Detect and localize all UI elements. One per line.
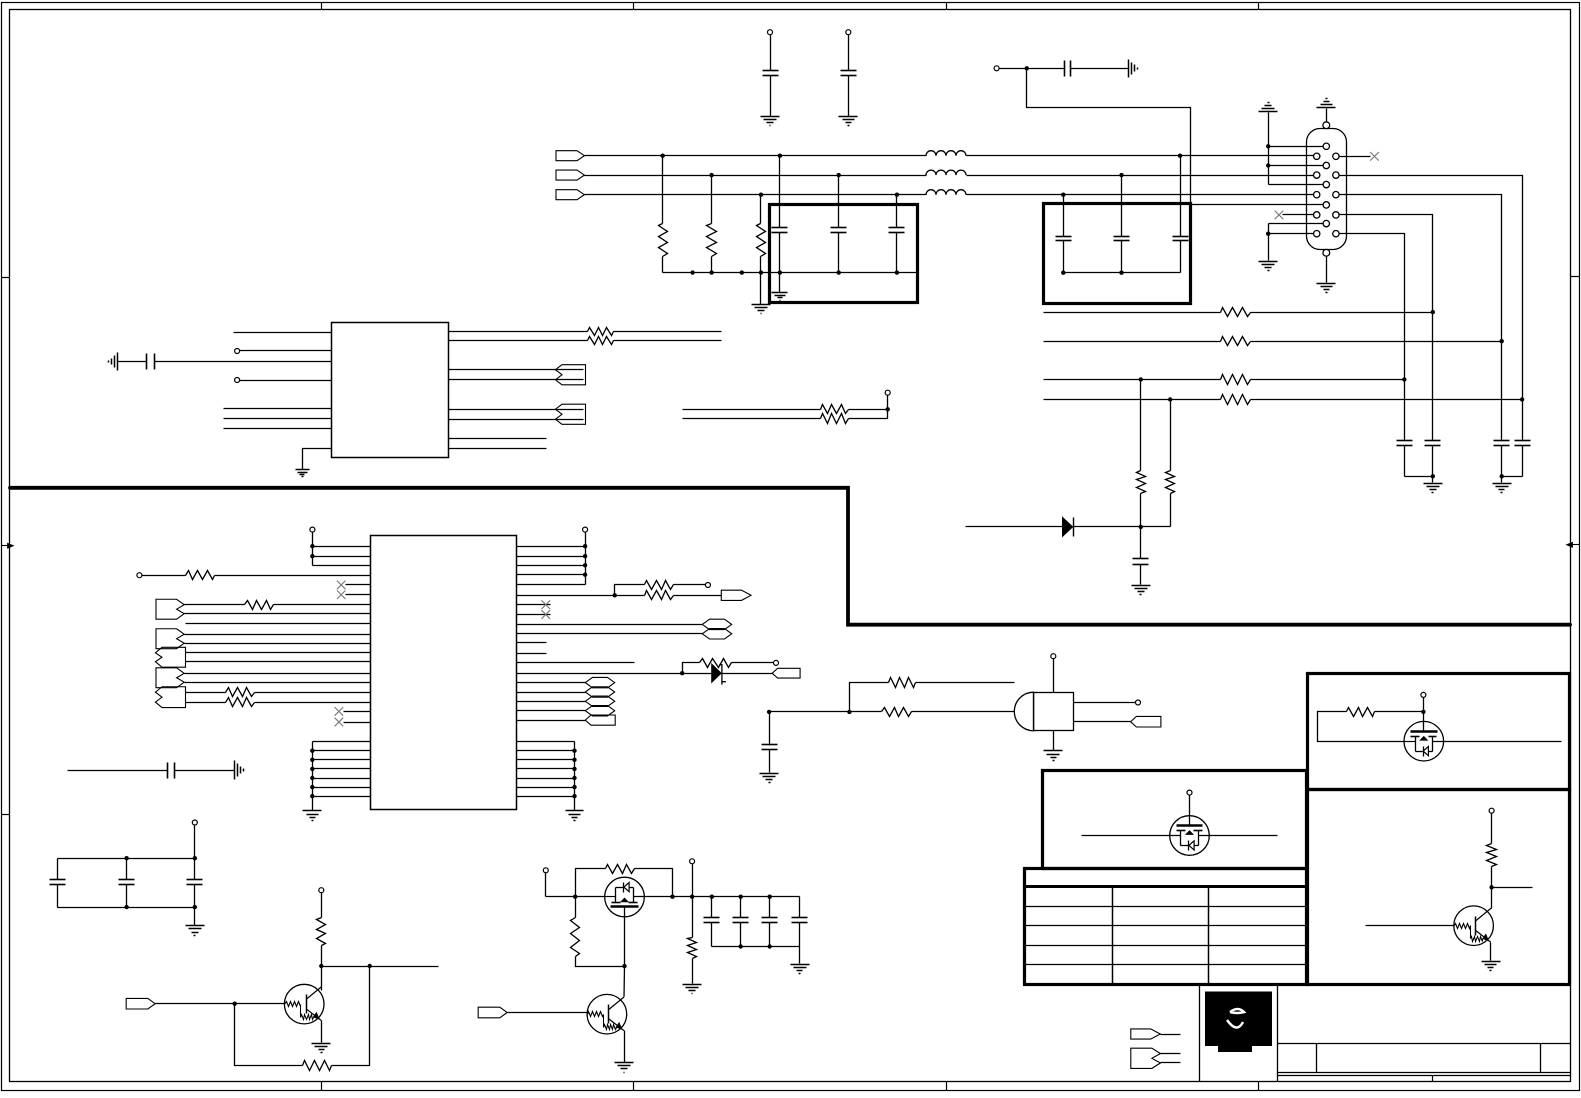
wire collector node	[322, 966, 439, 968]
connector mounting pin bottom	[1323, 249, 1330, 256]
U2 right bottom ground group	[517, 741, 575, 743]
flag pair U1 right B	[555, 404, 585, 424]
input flag J3	[556, 190, 584, 200]
connector pins right column	[1333, 153, 1339, 159]
wire	[585, 155, 927, 157]
wire U1 pin1	[234, 332, 332, 334]
connector left ground net upper	[1259, 111, 1278, 113]
wire bare row	[186, 623, 371, 625]
flag pair U2 L2	[156, 629, 184, 649]
transistor Q5	[1366, 925, 1455, 927]
wire	[1074, 526, 1141, 528]
resistor R10	[449, 331, 588, 333]
shield ground bottom	[1326, 257, 1328, 283]
U2 left bottom ground group	[313, 741, 371, 743]
terminal U1 pin2	[235, 349, 240, 354]
wire connector r3	[1340, 195, 1502, 441]
diode D1	[1063, 517, 1073, 536]
shield ground top	[1326, 109, 1328, 122]
flag left bottom	[517, 720, 586, 722]
flag pair U2 L5 output	[155, 687, 185, 708]
terminal Q3 gate drive	[543, 868, 548, 873]
U3 output B flag	[1074, 721, 1131, 723]
resistor R27 branch	[850, 683, 889, 712]
resistor R3 termination	[760, 195, 762, 224]
capacitor bank C17-C19	[192, 820, 197, 825]
ground U1	[303, 449, 332, 470]
emitter ground	[624, 1031, 626, 1063]
border centre arrow right	[1573, 544, 1580, 546]
box E outline	[1308, 674, 1570, 790]
signal ground	[1128, 60, 1130, 78]
collector wire	[321, 987, 323, 991]
terminal U2 left power	[310, 527, 315, 532]
wire	[585, 194, 927, 196]
wire to connector	[967, 155, 1314, 157]
wire	[585, 175, 927, 177]
wires U2 left rows 0-2	[313, 546, 371, 548]
wire to connector	[967, 194, 1314, 196]
input flag J2	[556, 170, 584, 180]
input flag J1	[556, 151, 584, 161]
wire to rail terminal	[673, 896, 712, 898]
flag pair U1 right A	[555, 365, 585, 385]
capacitor C16 with signal ground	[68, 770, 168, 772]
terminal	[886, 407, 890, 411]
cap bank bus AB	[1405, 476, 1433, 478]
capacitor C24 input	[767, 710, 771, 714]
wire connector r4	[1340, 215, 1433, 441]
border zone ticks left	[2, 277, 10, 279]
wire connector r2	[1340, 176, 1523, 441]
no-connect stubs U2 left lower	[344, 711, 371, 713]
resistor R17	[186, 702, 226, 704]
terminal in box E	[1421, 692, 1426, 697]
resistor R4 series line	[1044, 312, 1221, 314]
resistor R13	[683, 418, 821, 420]
capacitor C9	[1180, 156, 1182, 237]
resistor R26	[882, 708, 912, 717]
resistor R28	[1375, 711, 1424, 713]
U3 bottom pin ground	[1053, 731, 1055, 751]
ground stub	[760, 273, 762, 305]
capacitor C14	[1140, 527, 1142, 559]
terminal Q1 collector supply	[319, 888, 324, 893]
capacitor C11	[1425, 440, 1441, 442]
emitter wire and ground	[321, 1021, 323, 1043]
connector pins left column	[1314, 153, 1320, 159]
TVS diode D2 with parallel resistor R20	[517, 673, 712, 675]
flag	[772, 668, 800, 678]
ground	[1132, 585, 1151, 587]
no-connect stubs U2 right	[517, 604, 551, 606]
resistor R1 termination	[662, 156, 664, 224]
hex flag rows b	[517, 682, 586, 684]
resistor R9 vertical	[1170, 400, 1172, 471]
flag pair U2 L1	[156, 599, 184, 619]
resistor R11	[449, 340, 588, 342]
MOSFET Q3	[605, 877, 645, 917]
hex flag rows a	[517, 624, 703, 626]
terminal	[690, 859, 695, 864]
capacitor C15 with signal ground	[117, 353, 119, 371]
ground	[1482, 961, 1501, 963]
no-connect stubs U2 left	[346, 584, 371, 586]
capacitor C3 series	[1027, 68, 1065, 70]
transistor Q4	[478, 1007, 507, 1018]
border centre arrow left	[2, 545, 9, 547]
resistor R5 series line	[1044, 341, 1221, 343]
MOSFET Q6	[1404, 721, 1444, 761]
logo stamp	[1205, 992, 1272, 1053]
table box G	[1025, 869, 1307, 985]
flag single	[1131, 1029, 1161, 1039]
no-connect pin r1	[1340, 156, 1371, 158]
resistor R21	[317, 918, 326, 946]
resistor R29	[1487, 844, 1497, 867]
IC U2	[371, 536, 517, 810]
resistor R7 series line	[1044, 399, 1221, 401]
inductor L2	[926, 170, 966, 175]
terminal and resistor R14 row3	[137, 573, 142, 578]
wires U1 pins 5-7	[224, 408, 332, 410]
bus junction dots	[690, 270, 694, 274]
junction dots row1	[661, 154, 665, 158]
resistor R15	[185, 604, 245, 606]
terminal in box F	[1489, 808, 1494, 813]
wire	[966, 526, 1063, 528]
resistor R22 feedback	[235, 1004, 303, 1066]
resistor R2 termination	[711, 176, 713, 224]
filter box outline 2	[1044, 204, 1191, 304]
resistor R6 series line	[1044, 379, 1221, 381]
border zone ticks bottom	[321, 1082, 323, 1091]
resistor R25 to ground	[692, 897, 694, 938]
capacitor C4	[779, 156, 781, 228]
wire to connector pin 9	[1027, 69, 1324, 205]
capacitor C8	[1121, 176, 1123, 237]
flag pair U2 L4	[156, 668, 184, 688]
capacitor C12	[1494, 440, 1510, 442]
wire	[1492, 887, 1533, 889]
no-connect pin l4	[1283, 214, 1314, 216]
ground	[752, 304, 771, 306]
wire	[546, 896, 605, 898]
resistor R8 vertical	[1140, 380, 1142, 471]
wires U2 right rows 0-4	[517, 546, 586, 548]
capacitor C7	[1063, 195, 1065, 237]
resistor R18 pullup	[615, 585, 645, 596]
ground	[1424, 483, 1443, 485]
capacitor C5	[838, 176, 840, 228]
wires U1 right bottom	[449, 438, 547, 440]
ground	[186, 925, 205, 927]
capacitor C13	[1515, 440, 1531, 442]
bus wire of terminations	[663, 272, 917, 274]
ground inside box1	[779, 273, 781, 293]
terminal U1 pin4	[235, 378, 240, 383]
bus wire box2	[1064, 272, 1181, 274]
connector J4 DE15 outline	[1307, 129, 1347, 250]
wire dead end row	[517, 662, 635, 664]
gate wire down	[624, 907, 626, 967]
terminal U2 right power	[583, 527, 588, 532]
terminal in box C	[1187, 790, 1192, 795]
flag pair U2 L3 output	[155, 647, 185, 667]
box F outline	[1308, 790, 1570, 985]
wire to connector	[967, 175, 1314, 177]
resistor R23	[575, 897, 577, 918]
wire	[185, 613, 371, 615]
resistor R12	[683, 409, 821, 411]
ground	[791, 964, 810, 966]
inductor L3	[926, 190, 966, 195]
capacitor bank C20-C23	[712, 896, 800, 898]
device U3	[1014, 692, 1033, 731]
IC U1	[332, 323, 449, 458]
junction dots	[1061, 271, 1065, 275]
box C outline	[1043, 771, 1307, 869]
wire row5 with resistor R19 and flag	[517, 595, 645, 597]
connector left ground net lower	[1268, 224, 1270, 261]
transistor Q1	[284, 984, 324, 1024]
capacitor C1 pull-down	[768, 30, 773, 35]
inductor L1	[926, 151, 966, 156]
short stubs U2 right	[517, 642, 547, 644]
MOSFET Q7	[1170, 816, 1210, 856]
resistor R16	[186, 692, 226, 694]
junction dots row2	[709, 173, 713, 177]
capacitor C6	[896, 195, 898, 228]
title block	[1199, 985, 1201, 1082]
ground	[839, 116, 858, 118]
wire	[1000, 68, 1027, 70]
border zone ticks top	[321, 3, 323, 10]
capacitor C10	[1397, 440, 1413, 442]
node junction	[1025, 66, 1029, 70]
filter box outline 1	[770, 205, 918, 303]
ground	[761, 116, 780, 118]
capacitor C2 pull-down	[846, 30, 851, 35]
connector mounting pin top	[1323, 122, 1330, 129]
U3 top pin	[1053, 659, 1055, 693]
border zone tick right	[1571, 276, 1580, 278]
wire connector r5	[1340, 234, 1405, 441]
U3 output A	[1074, 702, 1136, 704]
ground	[1493, 483, 1512, 485]
cap bank bus CD	[1502, 476, 1523, 478]
input flag	[126, 998, 155, 1009]
junction dots on lines 3,4	[1139, 377, 1143, 381]
wire	[770, 711, 882, 713]
net stub terminal	[994, 66, 999, 71]
connector pins middle column	[1323, 143, 1329, 149]
flag double	[1131, 1048, 1161, 1068]
junction dots row3	[759, 193, 763, 197]
thick separator bus line	[10, 488, 1570, 625]
resistor R24 top loop	[576, 869, 606, 897]
